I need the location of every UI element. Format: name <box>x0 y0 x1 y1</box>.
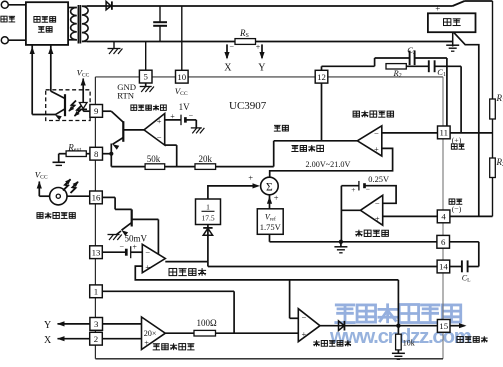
svg-text:100Ω: 100Ω <box>197 318 218 328</box>
svg-text:R1: R1 <box>496 93 503 104</box>
svg-text:13: 13 <box>92 247 101 257</box>
svg-text:20×: 20× <box>144 329 157 338</box>
svg-text:50k: 50k <box>147 154 161 164</box>
svg-text:2.00V~21.0V: 2.00V~21.0V <box>306 160 351 169</box>
svg-text:−: − <box>374 128 379 138</box>
svg-text:+: + <box>248 172 253 182</box>
svg-text:10: 10 <box>177 72 186 82</box>
svg-text:(+): (+) <box>452 135 462 144</box>
svg-text:1.75V: 1.75V <box>260 222 282 232</box>
svg-text:1: 1 <box>206 202 210 211</box>
svg-text:+: + <box>170 112 175 121</box>
svg-text:+: + <box>132 242 137 251</box>
svg-text:UC3907: UC3907 <box>229 100 267 112</box>
svg-text:6: 6 <box>441 237 446 247</box>
svg-text:+: + <box>144 338 149 347</box>
svg-text:16: 16 <box>92 193 101 203</box>
svg-text:3: 3 <box>94 319 99 329</box>
svg-text:4: 4 <box>441 212 446 222</box>
svg-text:−: − <box>145 247 150 257</box>
svg-text:−: − <box>157 132 162 142</box>
svg-text:+: + <box>157 116 162 126</box>
svg-text:+: + <box>375 214 380 224</box>
svg-text:−: − <box>302 312 307 322</box>
svg-text:0.25V: 0.25V <box>368 175 389 184</box>
svg-text:Σ: Σ <box>266 181 273 193</box>
svg-text:+: + <box>274 193 279 203</box>
svg-text:5: 5 <box>143 72 148 82</box>
svg-text:14: 14 <box>439 262 448 272</box>
svg-text:−: − <box>230 43 235 52</box>
svg-text:R2: R2 <box>496 157 503 168</box>
svg-text:Y: Y <box>44 320 51 331</box>
svg-text:1: 1 <box>94 286 98 296</box>
svg-text:10k: 10k <box>403 339 415 348</box>
svg-text:+: + <box>351 185 355 194</box>
svg-text:17.5: 17.5 <box>201 214 214 223</box>
svg-text:−: − <box>119 243 124 252</box>
svg-text:RTN: RTN <box>117 91 135 101</box>
svg-text:Y: Y <box>258 62 265 73</box>
svg-text:X: X <box>44 335 52 346</box>
svg-text:9: 9 <box>94 106 99 116</box>
svg-text:−: − <box>375 199 380 209</box>
svg-text:+: + <box>145 262 150 272</box>
svg-text:+: + <box>374 144 379 154</box>
svg-text:2: 2 <box>94 334 98 344</box>
svg-text:+: + <box>435 3 440 13</box>
svg-text:12: 12 <box>317 72 326 82</box>
svg-text:+: + <box>302 329 307 339</box>
svg-text:8: 8 <box>94 149 99 159</box>
svg-text:(−): (−) <box>452 204 462 213</box>
svg-text:20k: 20k <box>199 154 213 164</box>
svg-text:11: 11 <box>440 128 448 138</box>
svg-text:X: X <box>224 62 232 73</box>
svg-text:15: 15 <box>439 321 448 331</box>
svg-text:+: + <box>256 43 261 52</box>
svg-text:1V: 1V <box>179 102 191 112</box>
